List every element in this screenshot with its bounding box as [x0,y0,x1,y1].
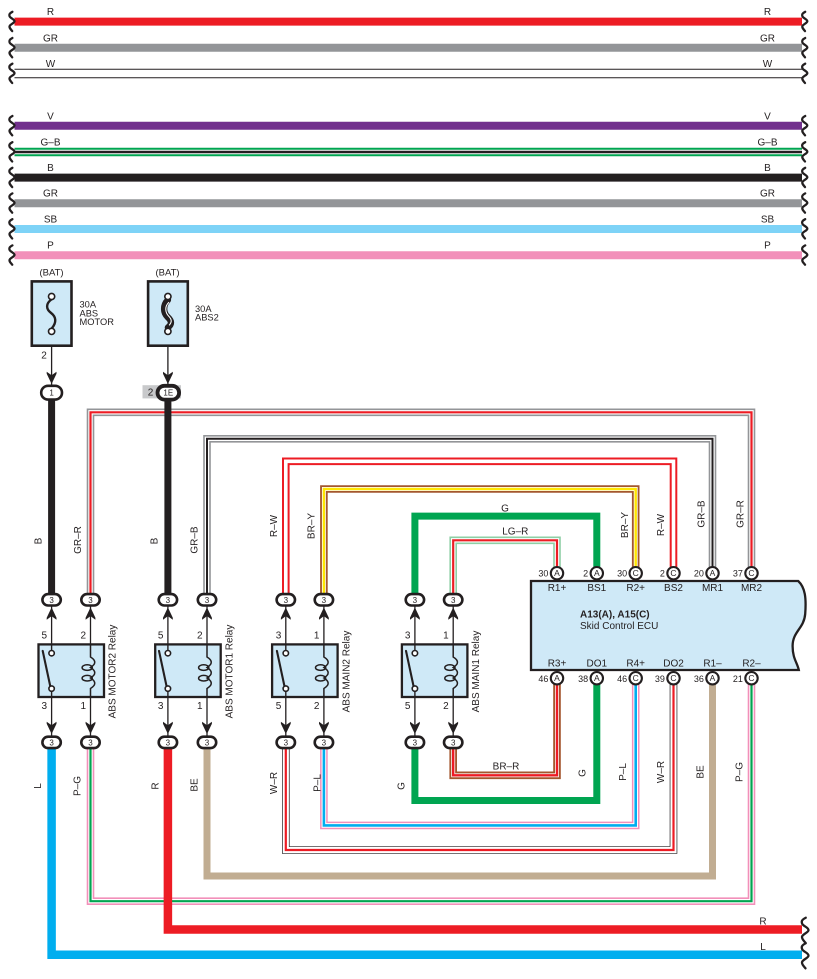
svg-text:P: P [47,241,54,252]
svg-text:BS2: BS2 [664,583,683,594]
relay ABS MOTOR2 Relay [39,644,105,697]
svg-text:ABS MOTOR1 Relay: ABS MOTOR1 Relay [224,625,235,719]
relay bottom lead wire [285,697,287,738]
svg-text:LG–R: LG–R [502,526,528,537]
svg-text:GR–B: GR–B [190,526,201,554]
svg-text:5: 5 [42,631,48,642]
svg-text:2: 2 [443,701,449,712]
ECU pin 21(C) R2– [745,672,757,684]
bus wire SB [15,225,803,233]
svg-text:BR–R: BR–R [493,762,520,773]
svg-text:C: C [633,568,639,578]
svg-text:MR1: MR1 [702,583,724,594]
svg-text:3: 3 [276,631,282,642]
svg-text:R2+: R2+ [626,583,645,594]
svg-text:MOTOR: MOTOR [80,317,115,327]
wire L relay1 pin3 to bottom bus [52,748,802,955]
svg-text:3: 3 [405,631,411,642]
svg-text:3: 3 [451,738,456,747]
svg-text:BS1: BS1 [587,583,606,594]
wire P-G relay1 pin1 to ECU R2- [91,684,752,901]
svg-text:GR–B: GR–B [697,500,708,528]
ABS MOTOR2 Relay coil [91,644,95,697]
svg-text:A13(A), A15(C): A13(A), A15(C) [580,610,650,621]
svg-text:1: 1 [80,701,86,712]
fuse 30A ABS MOTOR [32,281,72,345]
svg-text:R: R [47,7,54,18]
svg-text:(BAT): (BAT) [39,267,63,278]
svg-text:P–G: P–G [734,762,745,782]
svg-text:R1–: R1– [703,658,722,669]
svg-text:C: C [748,568,754,578]
wire R relay2 pin3 to bottom bus [168,748,802,930]
relay top lead wire [452,606,454,645]
svg-text:L: L [33,783,44,789]
svg-text:2: 2 [583,569,588,579]
svg-text:1E: 1E [163,389,173,398]
svg-text:BR–Y: BR–Y [306,513,317,539]
svg-text:A: A [594,673,600,683]
connector 1 [41,386,62,400]
ABS MOTOR2 Relay connectors 3 [42,594,60,605]
svg-text:R: R [759,917,766,928]
svg-text:P–L: P–L [618,763,629,781]
ABS MOTOR1 Relay coil [207,644,211,697]
wire B fuse1 to ABS MOTOR2 relay pin 5 [48,400,55,595]
svg-text:A: A [710,673,716,683]
svg-text:2: 2 [148,387,154,398]
svg-text:B: B [764,163,771,174]
svg-text:DO2: DO2 [663,658,684,669]
ABS MOTOR1 Relay connectors 3 [159,594,177,605]
bus wire W (top) [15,69,803,78]
ABS MAIN1 Relay coil [453,644,457,697]
svg-text:W: W [46,59,56,70]
svg-text:P: P [764,241,771,252]
svg-text:C: C [633,673,639,683]
svg-text:3: 3 [322,596,327,605]
svg-text:3: 3 [49,596,54,605]
svg-text:46: 46 [617,674,627,684]
svg-text:R–W: R–W [269,514,280,537]
svg-text:2: 2 [660,569,665,579]
connector 1E [158,386,180,400]
svg-text:3: 3 [42,701,48,712]
svg-text:A: A [554,673,560,683]
wire BR-R relay4 pin2 to ECU R3+ [453,684,557,775]
wire BE relay2 pin1 to ECU R1- [207,684,713,876]
svg-text:3: 3 [205,738,210,747]
svg-text:3: 3 [322,738,327,747]
wire G relay4 pin5 to ECU DO1 [415,684,597,801]
fuse lead wire [167,334,169,386]
svg-text:L: L [760,942,766,953]
ECU pin 37(C) MR2 [745,567,757,579]
svg-text:C: C [748,673,754,683]
svg-text:3: 3 [284,738,289,747]
wire GR-B relay2 pin2 to ECU MR1 [207,439,713,595]
relay bottom lead wire [323,697,325,738]
svg-text:A: A [710,568,716,578]
svg-text:5: 5 [158,631,164,642]
bus wire V [15,122,803,130]
svg-text:R: R [764,7,771,18]
svg-text:A: A [554,568,560,578]
svg-text:MR2: MR2 [741,583,763,594]
svg-text:P–G: P–G [72,776,83,796]
svg-text:BE: BE [696,765,707,779]
ECU pin 36(A) R1– [706,672,718,684]
svg-text:30: 30 [538,569,548,579]
svg-text:5: 5 [405,701,411,712]
svg-text:1: 1 [314,631,320,642]
svg-text:C: C [670,568,676,578]
svg-text:R4+: R4+ [626,658,645,669]
svg-text:3: 3 [166,596,171,605]
bus wire GR (top) [15,44,803,52]
svg-text:R2–: R2– [742,658,761,669]
wire W-R relay3 pin5 to ECU DO2 [286,684,674,850]
ECU pin 39(C) DO2 [667,672,679,684]
relay ABS MAIN2 Relay [272,644,338,697]
svg-text:3: 3 [166,738,171,747]
svg-text:B: B [150,537,161,544]
fuse 30A ABS2 [148,281,188,345]
svg-text:20: 20 [694,569,704,579]
svg-text:5: 5 [276,701,282,712]
svg-text:GR: GR [760,189,775,200]
svg-text:3: 3 [88,596,93,605]
relay bottom lead wire [414,697,416,738]
wire B fuse2 to ABS MOTOR1 relay pin 5 [164,400,171,595]
svg-text:2: 2 [41,351,47,362]
svg-text:GR: GR [43,33,58,44]
wire R-W relay3 pin3 to ECU BS2 [286,461,674,594]
ECU A13(A)/A15(C) Skid Control ECU box [531,581,806,670]
svg-text:39: 39 [655,674,665,684]
svg-text:G–B: G–B [40,138,60,149]
svg-text:3: 3 [158,701,164,712]
svg-text:BE: BE [189,778,200,792]
ECU pin 38(A) DO1 [591,672,603,684]
ECU pin 20(A) MR1 [706,567,718,579]
fuse lead wire [51,334,53,386]
ABS MAIN1 Relay connectors 3 [406,594,424,605]
svg-text:V: V [47,111,54,122]
relay top lead wire [206,606,208,645]
relay top lead wire [167,606,169,645]
bus wire G-B [15,148,803,156]
svg-text:GR–R: GR–R [73,526,84,554]
svg-text:G: G [577,769,588,777]
ECU pin 30(C) R2+ [630,567,642,579]
relay bottom lead wire [452,697,454,738]
svg-text:V: V [764,111,771,122]
svg-text:46: 46 [538,674,548,684]
bus wire GR (2nd) [15,199,803,207]
bus wire R (top) [15,18,803,26]
svg-text:R–W: R–W [656,513,667,536]
svg-text:37: 37 [733,569,743,579]
svg-text:GR: GR [43,189,58,200]
relay bottom lead wire [90,697,92,738]
svg-text:ABS MOTOR2 Relay: ABS MOTOR2 Relay [108,625,119,719]
svg-text:2: 2 [197,631,203,642]
relay bottom lead wire [167,697,169,738]
svg-text:3: 3 [49,738,54,747]
svg-text:2: 2 [80,631,86,642]
relay top lead wire [90,606,92,645]
svg-text:38: 38 [578,674,588,684]
relay bottom lead wire [206,697,208,738]
ECU pin 2(C) BS2 [667,567,679,579]
svg-text:2: 2 [314,701,320,712]
ABS MOTOR2 Relay switch contact [43,651,51,687]
relay top lead wire [323,606,325,645]
svg-text:B: B [47,163,54,174]
wire BR-Y relay3 pin1 to ECU R2+ [324,489,636,595]
ECU pin 30(A) R1+ [551,567,563,579]
svg-text:R1+: R1+ [548,583,567,594]
svg-text:3: 3 [451,596,456,605]
relay ABS MAIN1 Relay [402,644,468,697]
svg-text:SB: SB [44,215,58,226]
bus wire B [15,174,803,182]
wire P-L relay3 pin2 to ECU R4+ [324,684,636,825]
wire G relay4 pin3 to ECU BS1 [415,516,597,594]
svg-text:Skid Control ECU: Skid Control ECU [580,621,658,632]
wire LG-R relay4 pin1 to ECU R1+ [453,540,557,594]
ABS MAIN2 Relay coil [324,644,328,697]
svg-text:GR–R: GR–R [736,500,747,528]
bottom bus R squiggle [802,918,809,943]
svg-text:21: 21 [733,674,743,684]
bottom bus L squiggle [802,943,809,968]
ABS MAIN1 Relay switch contact [406,651,414,687]
svg-text:1: 1 [197,701,203,712]
svg-text:C: C [670,673,676,683]
svg-text:G: G [397,782,408,790]
bus wire P [15,251,803,259]
svg-text:3: 3 [284,596,289,605]
svg-text:G: G [501,503,509,514]
relay ABS MOTOR1 Relay [155,644,221,697]
svg-text:1: 1 [443,631,449,642]
svg-text:36: 36 [694,674,704,684]
svg-text:ABS MAIN1 Relay: ABS MAIN1 Relay [471,631,482,713]
ECU pin 2(A) BS1 [591,567,603,579]
svg-text:3: 3 [413,596,418,605]
relay bottom lead wire [51,697,53,738]
relay top lead wire [414,606,416,645]
svg-text:R: R [150,782,161,789]
svg-text:3: 3 [88,738,93,747]
svg-text:(BAT): (BAT) [155,267,179,278]
svg-text:A: A [594,568,600,578]
svg-text:G–B: G–B [757,138,777,149]
svg-text:30: 30 [617,569,627,579]
svg-text:SB: SB [761,215,775,226]
ABS MAIN2 Relay switch contact [277,651,285,687]
svg-text:GR: GR [760,33,775,44]
svg-text:W–R: W–R [269,772,280,794]
ECU pin 46(C) R4+ [630,672,642,684]
svg-text:W: W [763,59,773,70]
svg-text:ABS2: ABS2 [195,313,219,323]
svg-text:P–L: P–L [313,774,324,792]
ECU pin 46(A) R3+ [551,672,563,684]
svg-text:3: 3 [205,596,210,605]
ABS MAIN2 Relay connectors 3 [277,594,295,605]
svg-text:1: 1 [49,389,54,398]
ABS MOTOR1 Relay switch contact [159,651,167,687]
svg-text:ABS MAIN2 Relay: ABS MAIN2 Relay [341,631,352,713]
svg-text:B: B [34,537,45,544]
svg-text:BR–Y: BR–Y [620,512,631,538]
svg-text:3: 3 [413,738,418,747]
connector 1E pin 2 label highlight [143,385,182,398]
svg-text:R3+: R3+ [548,658,567,669]
relay top lead wire [51,606,53,645]
relay top lead wire [285,606,287,645]
svg-text:DO1: DO1 [587,658,608,669]
svg-text:W–R: W–R [656,761,667,783]
wire GR-R relay1 pin2 to ECU MR2 [91,412,752,594]
